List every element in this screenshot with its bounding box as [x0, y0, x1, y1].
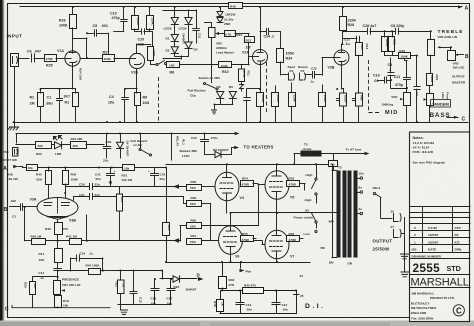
- HT supply bus (node A): [20, 6, 462, 8]
- TANDEM / BASS labels: [431, 100, 451, 108]
- plate node to coupling wire: [73, 38, 87, 40]
- capacitor C7: [414, 86, 420, 88]
- wire to R12: [235, 33, 249, 35]
- zener pair 18K1W 2x30v: [220, 7, 222, 11]
- power tube V5 EL34: [265, 171, 289, 199]
- wire: [34, 58, 44, 60]
- capacitor C15: [133, 271, 135, 291]
- grid wire from R12: [249, 56, 253, 58]
- scan left black strip: [0, 0, 3, 326]
- page border: [7, 4, 9, 318]
- svg-text:10u: 10u: [151, 302, 156, 306]
- power tube V4 EL34: [215, 172, 239, 200]
- plate bus to transformer: [166, 164, 332, 166]
- diode D1: [171, 35, 178, 41]
- resistor R31 4.7K: [225, 31, 236, 37]
- resistor R14 470K: [382, 37, 388, 52]
- svg-text:1N4007: 1N4007: [186, 288, 197, 292]
- switching rail: [16, 133, 236, 135]
- LED9: [185, 18, 192, 24]
- svg-text:Pwr: Pwr: [246, 270, 252, 274]
- resistor R19 10k: [55, 296, 62, 308]
- svg-text:C13: C13: [246, 303, 252, 307]
- bottom rail: [220, 313, 296, 315]
- scan bottom gray strip: [0, 321, 474, 326]
- power tube V7 EL34: [265, 230, 289, 258]
- resistor R22 680R: [430, 55, 432, 73]
- resistor R11 4K7: [241, 65, 243, 70]
- resistor R10 220K: [134, 7, 136, 16]
- resistor R38 56K with bypass cap: [356, 93, 363, 106]
- resistor R49 on HT bus: [229, 3, 243, 9]
- resistor R42 470: [222, 290, 243, 292]
- resistor R8 10K: [167, 62, 180, 68]
- jack ground wire: [14, 67, 16, 123]
- Pwr arrow on cathode rail: [240, 262, 242, 268]
- pcb boundary dashed line: [368, 60, 370, 113]
- capacitor C17 10u: [170, 279, 172, 288]
- cathode rail: [166, 262, 310, 264]
- preamp ground bus: [13, 122, 468, 124]
- capacitor C21: [196, 10, 198, 29]
- svg-text:27K: 27K: [229, 283, 235, 287]
- resistor R9b: [333, 154, 335, 161]
- node A arrow top right: [458, 5, 462, 8]
- svg-text:10u: 10u: [167, 302, 172, 306]
- resistor R12 1M: [245, 37, 255, 43]
- clipping diode sub-bus: [163, 10, 196, 12]
- resistor R28 220K: [342, 7, 344, 17]
- svg-text:10n: 10n: [283, 307, 288, 311]
- svg-text:25: 25: [300, 294, 304, 298]
- diode D2: [171, 47, 178, 53]
- svg-text:C16: C16: [151, 297, 157, 301]
- jack 25 tap: [296, 291, 298, 295]
- resistor R48 10k 1W: [27, 165, 38, 171]
- power tube V6 EL34: [219, 226, 243, 254]
- grid leak wires: [24, 207, 26, 241]
- resistor R21 470K: [389, 37, 395, 52]
- cathode wires down to ground bus: [72, 67, 74, 89]
- LED8: [171, 18, 178, 24]
- diode D10 1N4007: [162, 271, 164, 279]
- ground hatch bottom left: [118, 304, 171, 306]
- resistor R15: [257, 93, 264, 107]
- capacitor C13 10n: [240, 291, 242, 302]
- resistor R37 820R with bypass cap: [340, 93, 347, 106]
- svg-text:C12: C12: [282, 303, 288, 307]
- resistor R46 100K: [63, 171, 69, 185]
- wire plate node to treble: [343, 31, 367, 33]
- cluster bottom wire: [175, 56, 189, 58]
- wire jack to C6: [19, 58, 29, 60]
- resistor R35: [319, 93, 326, 107]
- plate resistor (rotated box): [148, 47, 154, 61]
- copyright symbol: [453, 305, 464, 316]
- pot VR3 1M LOG output master: [448, 51, 456, 61]
- capacitor C42 50u: [154, 168, 156, 174]
- resistor R48 470: [55, 223, 63, 235]
- bass pot VR6: [429, 85, 431, 93]
- wire R25 to V1A grid: [56, 58, 65, 60]
- resistor R21b 1K: [118, 280, 125, 294]
- node D arrow: [198, 277, 204, 281]
- ground arrow: [214, 104, 220, 106]
- cathode bracket: [47, 217, 68, 220]
- resistor R16: [272, 93, 279, 107]
- wire bus to R26 and down to plate: [72, 7, 74, 14]
- svg-text:R42 470: R42 470: [244, 284, 256, 288]
- resistor R9 1K8: [135, 93, 141, 106]
- heater rail arrow: [235, 132, 240, 136]
- LED9 column wire: [188, 10, 190, 56]
- PI output arrows: [173, 184, 179, 189]
- title block frame: [410, 132, 470, 322]
- resistor R10 100K: [196, 64, 219, 66]
- svg-text:C17: C17: [167, 297, 173, 301]
- ground symbol left: [14, 122, 16, 127]
- node C arrow right: [447, 117, 458, 119]
- resistor R51a 10k 1W on supply line: [123, 165, 135, 171]
- svg-text:R43: R43: [229, 278, 235, 282]
- capacitor C31 22n: [74, 196, 90, 198]
- LDR diode: [55, 142, 62, 149]
- resistor R11 220K: [149, 7, 151, 16]
- bias feed resistor R57 1K5: [163, 223, 170, 236]
- junction dots: [72, 6, 74, 8]
- resistor R13 56K: [356, 43, 363, 56]
- diode D4 1N4007: [120, 134, 122, 143]
- capacitor C22a: [246, 89, 248, 98]
- resistor R43 27K: [222, 262, 224, 276]
- capacitor C30 22n: [65, 184, 67, 187]
- resistor R52 2K2: [119, 187, 121, 195]
- resistor R30 390: [16, 144, 36, 146]
- triode V1B: [129, 53, 144, 68]
- input jack J1: [11, 54, 19, 67]
- resistor R33: [289, 93, 296, 107]
- pot VR2 220K lin Lead Master: [209, 28, 216, 38]
- channel switch: [156, 64, 158, 66]
- revision table lines: [410, 206, 471, 208]
- svg-text:10n: 10n: [247, 307, 252, 311]
- jack sleeve ground: [404, 243, 406, 253]
- capacitor C16 10u: [154, 279, 156, 288]
- resistor R18 1K: [220, 291, 222, 300]
- resistor R25: [45, 55, 57, 62]
- wire to R27: [80, 58, 102, 60]
- ground at jacks: [401, 272, 408, 277]
- svg-text:D.I.: D.I.: [305, 303, 326, 310]
- LED8 column wire: [174, 10, 176, 56]
- capacitor C12 10n: [276, 291, 278, 302]
- relay RL1: [171, 134, 173, 161]
